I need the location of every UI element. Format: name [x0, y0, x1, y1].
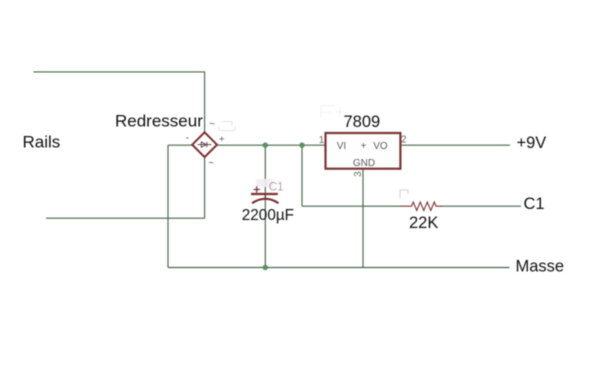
- junction dot capacitor top node: [263, 143, 268, 148]
- wire regulator output to +9V: [400, 144, 510, 146]
- wire C1 net horizontal to resistor: [302, 205, 400, 207]
- capacitor lead between plates: [264, 194, 266, 199]
- wire masse horizontal: [168, 267, 510, 269]
- bridge inner diode: [198, 142, 212, 147]
- svg-text:VI: VI: [337, 141, 346, 152]
- capacitor C1 symbol top plate: [251, 193, 278, 195]
- wire top rails horizontal: [34, 71, 206, 73]
- svg-text:VO: VO: [373, 141, 388, 152]
- wire resistor right to C1 label: [442, 205, 522, 207]
- wire bridge minus to left vertical: [168, 144, 193, 146]
- wire bridge AC bottom vertical: [204, 157, 206, 219]
- svg-text:1: 1: [319, 135, 325, 146]
- svg-text:GND: GND: [353, 158, 375, 169]
- resistor R 22K zigzag: [400, 202, 442, 210]
- svg-text:C1: C1: [269, 181, 284, 193]
- junction dot capacitor bottom on masse: [263, 265, 268, 270]
- svg-text:+9V: +9V: [517, 134, 547, 152]
- capacitor C1 symbol bottom arc: [252, 199, 279, 203]
- wire regulator GND vertical to masse: [362, 169, 364, 268]
- ghost marks right of bridge top: [219, 122, 235, 131]
- svg-text:Redresseur: Redresseur: [115, 112, 203, 131]
- wire capacitor branch vertical: [264, 145, 266, 267]
- svg-text:~: ~: [208, 157, 214, 168]
- junction dot C1 tap node: [300, 143, 305, 148]
- svg-text:Rails: Rails: [23, 133, 61, 152]
- svg-text:2200µF: 2200µF: [242, 207, 294, 224]
- svg-text:C1: C1: [524, 195, 545, 213]
- ghost mark left of 7809 label: [321, 106, 342, 118]
- svg-text:~: ~: [209, 118, 215, 129]
- svg-text:-: -: [186, 133, 189, 144]
- svg-text:3: 3: [353, 171, 364, 177]
- wire bridge plus to regulator input: [217, 144, 326, 146]
- svg-text:+: +: [361, 141, 367, 152]
- bridge rectifier diamond: [192, 132, 217, 157]
- svg-text:2: 2: [401, 135, 407, 146]
- svg-text:+: +: [219, 134, 225, 145]
- capacitor plus mark: [254, 186, 261, 192]
- svg-text:Masse: Masse: [516, 258, 565, 276]
- wire top rails vertical drop to bridge AC top: [204, 72, 206, 133]
- svg-text:22K: 22K: [409, 214, 438, 232]
- ghost smudge above capacitor: [256, 179, 273, 187]
- wire bottom rails horizontal: [46, 217, 205, 219]
- regulator U1 box: [340, 135, 378, 139]
- wire C1 net vertical tap: [301, 145, 303, 206]
- svg-text:7809: 7809: [344, 113, 381, 131]
- wire left vertical down to masse: [167, 145, 169, 267]
- ghost mark left of resistor: [400, 190, 408, 198]
